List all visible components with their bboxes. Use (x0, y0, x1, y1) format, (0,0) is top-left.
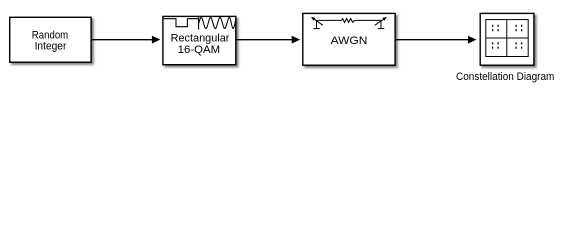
svg-text:Constellation Diagram: Constellation Diagram (456, 71, 555, 83)
svg-text:Rectangular: Rectangular (171, 33, 230, 45)
svg-text:Random: Random (32, 29, 69, 41)
svg-text:AWGN: AWGN (331, 35, 368, 47)
svg-text:Integer: Integer (35, 41, 67, 53)
svg-text:16-QAM: 16-QAM (178, 44, 220, 56)
